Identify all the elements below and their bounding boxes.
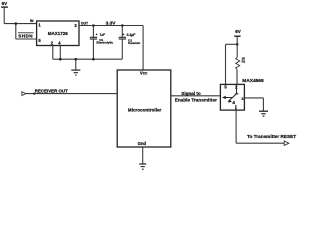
junction node C1 tap [92, 24, 95, 27]
capacitor C1 [90, 26, 98, 60]
svg-text:MAX1726: MAX1726 [48, 31, 69, 36]
value label 1K R1 [242, 57, 246, 64]
wire to transmitter reset [236, 142, 284, 144]
capacitor C2 [119, 26, 126, 60]
svg-text:Ceramic: Ceramic [128, 41, 140, 45]
regulator U1 MAX1726 body [37, 21, 79, 46]
svg-text:Enable Transmitter: Enable Transmitter [175, 98, 217, 103]
wire resistor to pin 2 [236, 70, 238, 85]
wire pin 4 down [59, 46, 61, 60]
microcontroller U3 body [117, 70, 171, 147]
junction node C1/rail [92, 58, 95, 61]
svg-text:4: 4 [232, 100, 235, 105]
svg-text:Vcc: Vcc [140, 70, 148, 75]
switch symbol inside MAX4568 [222, 84, 238, 110]
svg-text:To Transmitter RESET: To Transmitter RESET [247, 134, 296, 139]
junction node gnd stub [75, 58, 78, 61]
wire ground rail [53, 58, 123, 60]
ground (right of MAX4568) [259, 111, 268, 116]
svg-text:OUT: OUT [81, 21, 89, 25]
wire pin 3 to ground [244, 98, 263, 111]
junction node 6V branch [236, 43, 239, 46]
wire pin 2 down [52, 46, 54, 60]
net label Signal to Enable Transmitter [175, 91, 217, 103]
svg-text:MAX4568: MAX4568 [242, 78, 264, 84]
junction node pin4/rail [59, 58, 62, 61]
value label 0.1uF C2 Ceramic [127, 33, 141, 45]
wire micro gnd [142, 147, 144, 164]
wire receiver out [26, 93, 117, 95]
wire junction down [15, 24, 17, 39]
svg-text:3.3V: 3.3V [106, 20, 117, 26]
svg-text:R1: R1 [242, 60, 246, 64]
svg-text:Gnd: Gnd [138, 141, 147, 146]
svg-text:RECEIVER OUT: RECEIVER OUT [35, 88, 68, 93]
wire branch to pin 5 [226, 43, 238, 45]
analog switch U2 MAX4568 body [220, 84, 244, 110]
svg-text:6V: 6V [2, 1, 8, 6]
junction node C2 tap [121, 24, 124, 27]
svg-text:Electrolytic: Electrolytic [96, 41, 113, 45]
ground (below MAX1726) [71, 59, 80, 75]
supply terminal 6V (left) [1, 1, 8, 7]
resistor R1 [236, 57, 240, 69]
wire 6V down to resistor [236, 36, 238, 57]
svg-text:SHDN: SHDN [18, 33, 33, 38]
net label SHDN (overbar) [18, 33, 34, 39]
svg-text:0.1µF: 0.1µF [127, 33, 136, 37]
junction node 6V/SHDN [15, 22, 18, 25]
value label 1uF C1 Electrolytic [96, 33, 113, 45]
wire signal to enable transmitter [171, 95, 220, 97]
wire 6V to IN pin 1 [4, 23, 37, 25]
svg-text:6V: 6V [235, 29, 241, 34]
wire 3.3V rail down to Vcc [142, 26, 144, 71]
junction node receiver [33, 93, 35, 95]
wire pin 5 column [225, 44, 227, 84]
supply terminal 6V (right) [234, 29, 241, 36]
output terminal arrow [284, 141, 289, 145]
svg-text:1µF: 1µF [100, 33, 106, 37]
wire pin 1 down [235, 110, 237, 143]
svg-text:Signal to: Signal to [181, 91, 201, 96]
svg-text:IN: IN [30, 19, 34, 23]
ground (below microcontroller) [139, 164, 146, 169]
wire OUT 3.3V rail [79, 25, 143, 27]
svg-text:Microcontroller: Microcontroller [128, 108, 162, 113]
input terminal RECEIVER OUT [22, 92, 26, 96]
wire to SHDN pin 5 [16, 38, 37, 40]
wire 6V down [3, 7, 5, 24]
